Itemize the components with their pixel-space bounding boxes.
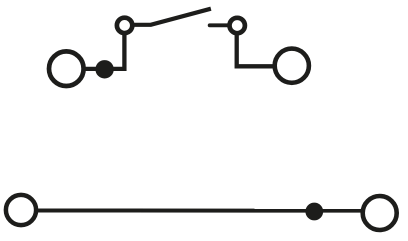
switch U1 pivot contact (left) (117, 18, 132, 33)
switch U1 contact (right) (230, 18, 245, 33)
junction dot (bottom level) (305, 203, 323, 221)
switch U1 blade (open knife disconnect) (133, 9, 211, 25)
switch U1 fixed contact stub (210, 23, 229, 27)
wire terminal1-to-junction with riser to switch pivot (85, 34, 125, 69)
terminal point 2 (top level, right) (275, 49, 309, 83)
terminal point 3 (bottom level, left) (6, 195, 36, 225)
terminal point 4 (bottom level, right) (363, 196, 397, 230)
terminal point 1 (top level, left) (49, 51, 84, 86)
wire feed-through (bottom level) (37, 209, 362, 213)
junction dot (top level) (95, 60, 113, 78)
wire right riser to terminal 2 (237, 34, 274, 67)
